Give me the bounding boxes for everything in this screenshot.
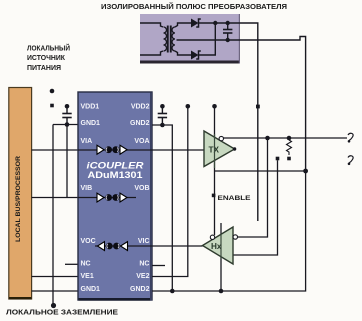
node: junction at resistor top xyxy=(287,136,292,141)
label: local power source xyxy=(27,43,70,72)
svg-text:ЛОКАЛЬНЫЙ: ЛОКАЛЬНЫЙ xyxy=(27,43,70,52)
wire: Tx enable pass-through redraw xyxy=(214,134,216,168)
node: junction to Hx enable xyxy=(265,136,270,141)
svg-text:ADuM1301: ADuM1301 xyxy=(88,170,144,181)
transformer T1 core xyxy=(167,26,169,53)
node: GND2 junction at cap drop xyxy=(170,289,175,294)
node: enable vertical top dot xyxy=(212,104,217,109)
node: power leader dot xyxy=(50,89,55,94)
svg-text:ЛОКАЛЬНОЕ ЗАЗЕМЛЕНИЕ: ЛОКАЛЬНОЕ ЗАЗЕМЛЕНИЕ xyxy=(6,308,118,317)
wire: channel A line inside IC xyxy=(78,149,152,151)
svg-text:VIA: VIA xyxy=(81,138,93,145)
wire: V+ output and right rail xyxy=(228,23,258,221)
wire: converter primary top lead xyxy=(140,23,163,27)
wire: VOA to Tx xyxy=(152,149,204,151)
svg-text:NC: NC xyxy=(139,261,149,268)
wire: Hx input riser xyxy=(233,160,278,255)
node: V+ rail tap (square) xyxy=(256,105,260,109)
wire: Hx ground pass-through vertical xyxy=(220,223,222,291)
wire: secondary bottom lead xyxy=(175,51,192,55)
node: cap C3 top junction xyxy=(226,21,230,25)
svg-text:GND2: GND2 xyxy=(130,286,150,293)
wire: C1 junction drop to VIB row xyxy=(66,125,68,198)
wire: VIA from bus to IC xyxy=(32,149,78,151)
svg-text:GND1: GND1 xyxy=(81,120,101,127)
node: resistor bottom square xyxy=(287,157,291,161)
wire: Hx enable drop xyxy=(238,138,268,237)
node: C2 to GND2 junction xyxy=(160,123,165,128)
op-amp Hx xyxy=(203,227,234,264)
node: Hx input riser square xyxy=(276,157,280,161)
node: diode outputs junction xyxy=(213,21,217,25)
IC U1 ADuM1301 body xyxy=(78,92,152,301)
node: ground end dot xyxy=(51,303,56,308)
wire: enable vertical (VDD2 tap through Tx down to Hx) xyxy=(214,106,216,235)
node: VE2 pull-up dot xyxy=(186,104,191,109)
connector glyph top right xyxy=(348,133,353,142)
channel A coupler symbol xyxy=(97,145,127,154)
svg-text:VE2: VE2 xyxy=(136,273,149,280)
svg-text:VDD1: VDD1 xyxy=(81,104,100,111)
wire: VE2 to VDD2 pull-up xyxy=(152,106,188,276)
node: Tx enable bubble xyxy=(219,136,223,140)
svg-text:NC: NC xyxy=(81,261,91,268)
transformer T1 secondary winding xyxy=(172,27,175,51)
wire: VE1 from bus to IC xyxy=(32,276,78,278)
wire: VIB from bus to IC xyxy=(32,197,78,199)
svg-text:VIB: VIB xyxy=(81,185,93,192)
wire: GND1 bottom from bus to IC xyxy=(32,290,78,292)
wire: NC stub left xyxy=(65,263,78,265)
node: Tx output tip dot xyxy=(233,147,236,150)
wire: channel B line inside IC xyxy=(78,197,136,199)
svg-text:LOCAL BUS/PROCESSOR: LOCAL BUS/PROCESSOR xyxy=(15,156,22,242)
diode D1 (schottky, top) xyxy=(191,19,201,28)
node: C1 to GND1 junction xyxy=(65,122,70,127)
wire: secondary top lead xyxy=(175,23,192,27)
svg-text:ИЗОЛИРОВАННЫЙ ПОЛЮС ПРЕОБРАЗОВ: ИЗОЛИРОВАННЫЙ ПОЛЮС ПРЕОБРАЗОВАТЕЛЯ xyxy=(101,2,287,11)
wire: NC stub right xyxy=(152,265,165,267)
node: Hx enable bubble xyxy=(210,235,214,239)
capacitor C2 (VDD2 bypass) xyxy=(158,104,167,125)
svg-text:GND2: GND2 xyxy=(130,120,150,127)
wire: ground rail vertical xyxy=(52,125,54,306)
svg-text:VOB: VOB xyxy=(134,185,149,192)
diode D2 (schottky, bottom) xyxy=(191,51,201,60)
channel B coupler symbol xyxy=(97,193,127,202)
capacitor C3 xyxy=(223,23,232,40)
node: Hx input bubble xyxy=(233,235,237,239)
wire: GND2 bypass wire and drop xyxy=(152,125,172,291)
svg-text:VOA: VOA xyxy=(134,138,149,145)
svg-text:VOC: VOC xyxy=(81,238,96,245)
op-amp Tx xyxy=(204,131,235,167)
svg-text:VIC: VIC xyxy=(138,238,150,245)
svg-text:ИСТОЧНИК: ИСТОЧНИК xyxy=(27,55,66,62)
channel C coupler symbol (reversed) xyxy=(98,242,128,251)
node: cap C3 bottom junction on center tap xyxy=(226,38,230,42)
wire: Hx pass-through redraw xyxy=(220,234,222,259)
node: enable label square xyxy=(212,194,216,198)
converter box xyxy=(140,14,240,64)
svg-text:ENABLE: ENABLE xyxy=(218,195,252,202)
node: GND2 junction at Hx ground xyxy=(219,289,224,294)
node: power leader square xyxy=(50,104,54,108)
wire: Tx enable bubble to right (ENABLE net) xyxy=(224,137,348,139)
connector glyph bottom right xyxy=(348,156,353,165)
capacitor C1 (VDD1 bypass) xyxy=(62,104,71,125)
svg-text:GND1: GND1 xyxy=(81,286,101,293)
local bus / processor block xyxy=(9,88,32,300)
svg-text:VDD2: VDD2 xyxy=(131,104,150,111)
wire: VIC to Hx xyxy=(152,245,203,247)
wire: top diode output xyxy=(198,22,228,24)
wire: converter primary bottom lead xyxy=(140,51,163,55)
resistor R1 (pull-up/down) xyxy=(287,140,292,155)
svg-text:ПИТАНИЯ: ПИТАНИЯ xyxy=(27,65,61,72)
svg-text:Hx: Hx xyxy=(211,242,222,251)
wire: channel C line inside IC xyxy=(95,245,152,247)
wire: GND2 row to converter return rail xyxy=(152,171,306,291)
wire: bottom diode output to riser xyxy=(198,23,215,55)
transformer T1 primary winding xyxy=(164,27,167,51)
wire: center tap line xyxy=(177,37,306,172)
wire: GND1 bypass wire xyxy=(53,124,78,126)
wire: tee at y171 to converter return rail xyxy=(215,170,306,172)
svg-text:VE1: VE1 xyxy=(81,273,94,280)
node: junction with return rail xyxy=(303,169,308,174)
